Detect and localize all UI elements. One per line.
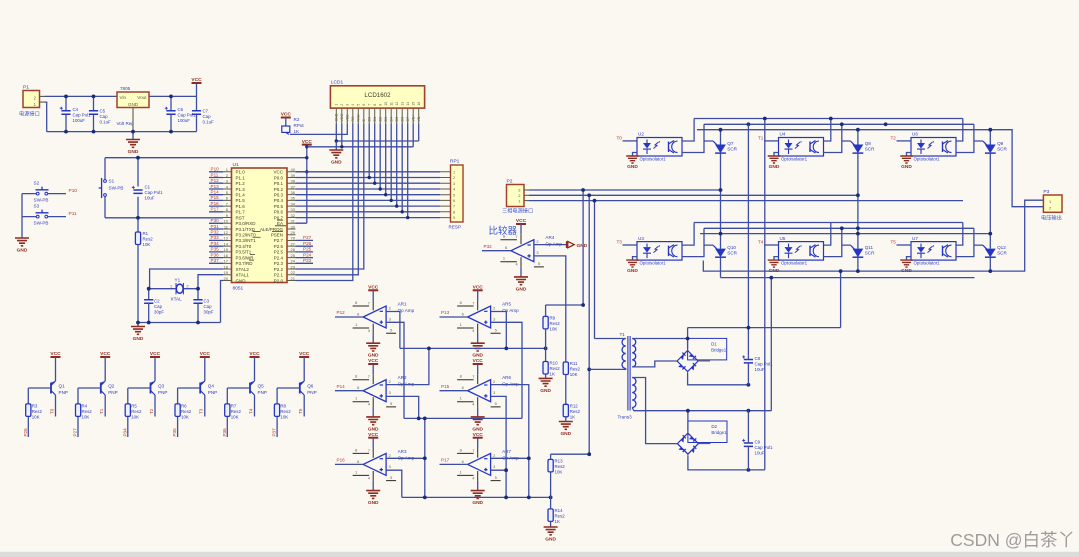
svg-text:8: 8 bbox=[460, 300, 462, 305]
svg-text:XTAL2: XTAL2 bbox=[236, 267, 250, 272]
wire bbox=[688, 411, 765, 470]
svg-text:Trans3: Trans3 bbox=[618, 415, 633, 420]
resistor R12 1K bbox=[563, 403, 580, 419]
power VCC Q1 bbox=[50, 351, 61, 357]
ground U3 bbox=[626, 257, 639, 275]
svg-text:VCC: VCC bbox=[473, 432, 484, 438]
MCU U1 8051 bbox=[223, 162, 296, 292]
svg-text:R1: R1 bbox=[143, 231, 149, 236]
wire bbox=[897, 140, 912, 142]
svg-text:Cap: Cap bbox=[100, 114, 109, 119]
svg-text:4: 4 bbox=[472, 402, 475, 407]
svg-text:VCC: VCC bbox=[200, 351, 211, 357]
svg-text:PNP: PNP bbox=[208, 390, 217, 395]
svg-text:P2: P2 bbox=[507, 179, 513, 185]
wire data bus bbox=[369, 124, 408, 218]
svg-text:6: 6 bbox=[505, 245, 507, 250]
wire phase rails bbox=[529, 190, 963, 201]
svg-text:AR3: AR3 bbox=[398, 449, 407, 454]
svg-text:Cap Pol1: Cap Pol1 bbox=[145, 190, 164, 195]
power VCC AR1 bbox=[368, 285, 379, 301]
svg-text:P0.1: P0.1 bbox=[274, 181, 284, 186]
ground AR5 bbox=[471, 334, 485, 359]
wire rail bbox=[694, 118, 963, 120]
svg-text:10K: 10K bbox=[181, 415, 189, 420]
svg-text:8: 8 bbox=[355, 300, 357, 305]
svg-text:P0.7: P0.7 bbox=[274, 215, 284, 220]
svg-text:3: 3 bbox=[493, 317, 495, 322]
svg-text:VCC: VCC bbox=[249, 351, 260, 357]
svg-text:P3.2/INT0: P3.2/INT0 bbox=[236, 233, 257, 238]
svg-text:Q11: Q11 bbox=[865, 245, 874, 250]
connector P3 voltage output bbox=[1041, 189, 1062, 222]
svg-text:8: 8 bbox=[355, 447, 357, 452]
svg-text:4: 4 bbox=[453, 188, 455, 192]
op-amp AR6 bbox=[457, 374, 519, 408]
resistor R7 10K bbox=[225, 404, 242, 420]
op-amp AR3 bbox=[353, 447, 415, 481]
wire bbox=[296, 124, 364, 281]
power VCC Q3 bbox=[150, 351, 161, 357]
svg-text:U7: U7 bbox=[912, 236, 918, 241]
svg-text:PSEN: PSEN bbox=[271, 233, 283, 238]
svg-text:P36: P36 bbox=[222, 428, 227, 437]
svg-text:1: 1 bbox=[355, 396, 357, 401]
svg-text:U6: U6 bbox=[912, 132, 918, 137]
svg-text:GND: GND bbox=[236, 278, 247, 283]
power VCC AR7 bbox=[473, 432, 484, 448]
svg-text:P3.4/T0: P3.4/T0 bbox=[236, 244, 252, 249]
svg-text:P11: P11 bbox=[211, 172, 219, 177]
svg-text:PNP: PNP bbox=[158, 390, 167, 395]
svg-text:0.1uF: 0.1uF bbox=[100, 120, 112, 125]
svg-text:GND: GND bbox=[128, 102, 139, 107]
wire bbox=[720, 234, 722, 278]
wire bbox=[440, 390, 468, 392]
svg-text:PNP: PNP bbox=[59, 390, 68, 395]
wire bbox=[589, 339, 626, 370]
svg-text:T5: T5 bbox=[298, 408, 303, 414]
svg-text:SCR: SCR bbox=[865, 251, 875, 256]
crystal Y1 XTAL bbox=[170, 278, 189, 302]
svg-text:30pF: 30pF bbox=[154, 310, 164, 315]
wire bbox=[583, 190, 594, 454]
svg-text:4: 4 bbox=[368, 475, 371, 480]
wire bbox=[440, 463, 468, 465]
ground below 7805 bbox=[126, 132, 140, 155]
svg-text:U3: U3 bbox=[638, 236, 644, 241]
svg-text:10K: 10K bbox=[280, 415, 288, 420]
optoisolator U4 bbox=[779, 132, 824, 162]
svg-text:10K: 10K bbox=[131, 415, 139, 420]
wire bbox=[720, 130, 722, 234]
svg-text:8: 8 bbox=[355, 374, 357, 379]
svg-text:Q7: Q7 bbox=[727, 141, 734, 146]
junction VCC column bbox=[305, 145, 308, 173]
svg-text:P2.2: P2.2 bbox=[274, 267, 284, 272]
svg-text:T5: T5 bbox=[891, 240, 897, 245]
op-amp AR5 bbox=[457, 300, 519, 334]
svg-text:2: 2 bbox=[493, 306, 495, 311]
svg-text:2: 2 bbox=[453, 176, 455, 180]
ground switches bbox=[15, 238, 29, 254]
resistor R9 10K bbox=[543, 316, 560, 332]
svg-text:8: 8 bbox=[453, 210, 455, 214]
power VCC Q4 bbox=[200, 351, 211, 357]
svg-text:7: 7 bbox=[368, 448, 370, 453]
resistor R6 10K bbox=[175, 404, 192, 420]
svg-text:RST: RST bbox=[236, 215, 245, 220]
svg-text:8051: 8051 bbox=[233, 286, 244, 292]
bottom scrollbar strip bbox=[0, 552, 1079, 557]
svg-text:Cap Pol1: Cap Pol1 bbox=[755, 362, 774, 367]
wire bbox=[764, 244, 779, 246]
svg-text:U2: U2 bbox=[638, 132, 644, 137]
svg-text:R2: R2 bbox=[294, 117, 300, 122]
svg-text:5: 5 bbox=[495, 475, 497, 480]
svg-text:6: 6 bbox=[362, 104, 366, 106]
svg-text:7: 7 bbox=[368, 301, 370, 306]
svg-text:P33: P33 bbox=[211, 235, 220, 240]
svg-text:30pF: 30pF bbox=[204, 310, 214, 315]
svg-text:4: 4 bbox=[351, 104, 355, 106]
svg-text:R5: R5 bbox=[131, 404, 137, 409]
svg-text:Res2: Res2 bbox=[131, 409, 142, 414]
svg-text:CSDN @白茶丫: CSDN @白茶丫 bbox=[950, 530, 1075, 550]
svg-text:P13: P13 bbox=[441, 310, 450, 315]
svg-text:P17: P17 bbox=[211, 207, 220, 212]
svg-text:P1.7: P1.7 bbox=[236, 210, 246, 215]
wire bbox=[764, 140, 779, 142]
transistor Q6 PNP bbox=[300, 381, 317, 395]
svg-text:Q9: Q9 bbox=[997, 141, 1004, 146]
svg-text:9: 9 bbox=[453, 216, 455, 220]
svg-text:P2.3: P2.3 bbox=[274, 261, 284, 266]
ground U2 bbox=[626, 153, 639, 171]
power VCC main bbox=[191, 77, 202, 96]
svg-text:Vin: Vin bbox=[120, 95, 127, 100]
wire bbox=[857, 130, 859, 234]
svg-text:AR5: AR5 bbox=[502, 302, 511, 307]
op-amp AR1 bbox=[353, 300, 415, 334]
junction D1 bbox=[686, 326, 751, 387]
wire bbox=[551, 454, 590, 497]
transistor Q3 PNP bbox=[150, 381, 167, 395]
junction reset bbox=[136, 156, 140, 220]
svg-text:AR6: AR6 bbox=[502, 375, 511, 380]
wire bbox=[897, 244, 912, 246]
svg-text:R3: R3 bbox=[32, 404, 38, 409]
regulator U 7805 bbox=[117, 86, 150, 132]
wire bbox=[546, 305, 584, 362]
junction bottom rails bbox=[719, 226, 993, 235]
svg-text:P2.6: P2.6 bbox=[274, 244, 284, 249]
svg-text:3: 3 bbox=[493, 390, 495, 395]
svg-text:SW-PB: SW-PB bbox=[109, 186, 124, 191]
svg-text:6: 6 bbox=[453, 199, 455, 203]
power VCC Q5 bbox=[249, 351, 260, 357]
svg-text:P25: P25 bbox=[303, 247, 312, 252]
svg-text:Res2: Res2 bbox=[82, 409, 93, 414]
power VCC AR6 bbox=[473, 358, 484, 374]
svg-text:8: 8 bbox=[460, 374, 462, 379]
svg-text:U4: U4 bbox=[780, 132, 786, 137]
wire port pins bbox=[209, 172, 223, 263]
svg-text:P34: P34 bbox=[122, 428, 127, 437]
svg-text:P0.5: P0.5 bbox=[274, 204, 284, 209]
svg-text:7: 7 bbox=[472, 374, 474, 379]
ground R12 bbox=[559, 417, 573, 437]
svg-text:P26: P26 bbox=[303, 241, 312, 246]
svg-text:P14: P14 bbox=[337, 384, 346, 389]
ground AR1 bbox=[366, 334, 380, 359]
svg-text:C8: C8 bbox=[755, 356, 761, 361]
svg-text:GND: GND bbox=[472, 353, 483, 359]
svg-text:T4: T4 bbox=[248, 408, 253, 414]
thyristor Q10 SCR bbox=[713, 245, 737, 257]
wire bbox=[721, 277, 975, 279]
svg-text:8: 8 bbox=[460, 447, 462, 452]
svg-text:C4: C4 bbox=[73, 107, 79, 112]
svg-text:D1: D1 bbox=[711, 342, 717, 347]
capacitor C3 30pF bbox=[193, 299, 213, 315]
svg-text:P17: P17 bbox=[441, 458, 450, 463]
svg-text:1K: 1K bbox=[294, 129, 301, 134]
optoisolator U6 bbox=[911, 132, 956, 162]
svg-text:P32: P32 bbox=[484, 244, 493, 249]
svg-text:3: 3 bbox=[493, 464, 495, 469]
svg-text:P15: P15 bbox=[441, 384, 450, 389]
svg-text:1: 1 bbox=[170, 284, 172, 288]
svg-text:P1.2: P1.2 bbox=[236, 181, 246, 186]
wire bbox=[748, 119, 840, 470]
transistor Q4 PNP bbox=[200, 381, 217, 395]
svg-text:Q10: Q10 bbox=[727, 245, 736, 250]
svg-text:C2: C2 bbox=[154, 299, 160, 304]
svg-text:6: 6 bbox=[357, 312, 359, 317]
svg-text:PNP: PNP bbox=[307, 390, 316, 395]
svg-text:9: 9 bbox=[378, 104, 382, 106]
svg-text:Optoisolator1: Optoisolator1 bbox=[781, 261, 808, 266]
svg-text:Res2: Res2 bbox=[555, 513, 566, 518]
wire rail bbox=[694, 222, 963, 224]
svg-text:T1: T1 bbox=[758, 136, 764, 141]
svg-text:GND: GND bbox=[545, 537, 556, 543]
wire bbox=[688, 328, 841, 385]
svg-text:C1: C1 bbox=[145, 185, 151, 190]
svg-text:P1.3: P1.3 bbox=[236, 187, 246, 192]
svg-text:R10: R10 bbox=[550, 361, 559, 366]
svg-text:GND: GND bbox=[368, 426, 379, 432]
svg-text:Res2: Res2 bbox=[181, 409, 192, 414]
svg-text:LCD1: LCD1 bbox=[331, 80, 344, 86]
svg-text:P1.4: P1.4 bbox=[236, 193, 246, 198]
capacitor C2 30pF bbox=[144, 299, 164, 315]
svg-text:6: 6 bbox=[462, 459, 464, 464]
svg-text:Res2: Res2 bbox=[143, 237, 154, 242]
svg-text:P3.1/TXD: P3.1/TXD bbox=[236, 227, 256, 232]
svg-text:1K: 1K bbox=[550, 372, 555, 377]
thyristor Q11 SCR bbox=[851, 245, 875, 257]
wire rail bbox=[700, 233, 990, 235]
svg-text:GND: GND bbox=[540, 388, 551, 394]
wire bbox=[956, 119, 983, 153]
svg-text:AR7: AR7 bbox=[502, 449, 511, 454]
svg-text:1: 1 bbox=[355, 469, 357, 474]
svg-text:2: 2 bbox=[389, 379, 391, 384]
svg-text:Res2: Res2 bbox=[550, 366, 561, 371]
svg-text:R4: R4 bbox=[82, 404, 88, 409]
svg-text:RPot: RPot bbox=[294, 123, 305, 128]
svg-text:ALE/PROG: ALE/PROG bbox=[260, 227, 284, 232]
svg-text:P0.0: P0.0 bbox=[274, 175, 284, 180]
op-amp AR4 bbox=[500, 234, 562, 268]
svg-text:Y1: Y1 bbox=[175, 278, 181, 283]
svg-text:10K: 10K bbox=[570, 372, 578, 377]
svg-text:Cap Pol1: Cap Pol1 bbox=[178, 113, 197, 118]
svg-text:VCC: VCC bbox=[100, 351, 111, 357]
svg-text:1K: 1K bbox=[555, 519, 560, 524]
svg-text:PNP: PNP bbox=[258, 390, 267, 395]
resistor R4 10K bbox=[76, 404, 93, 420]
ground AR2 bbox=[366, 407, 380, 432]
svg-text:XTAL: XTAL bbox=[171, 297, 183, 302]
display LCD1 LCD1602 bbox=[330, 80, 424, 124]
transistor Q1 PNP bbox=[51, 381, 68, 395]
svg-text:6: 6 bbox=[357, 385, 359, 390]
resistor R1 10K bbox=[135, 231, 153, 323]
svg-text:T0: T0 bbox=[617, 136, 623, 141]
svg-text:5: 5 bbox=[453, 193, 455, 197]
svg-text:GND: GND bbox=[17, 248, 28, 254]
svg-text:三相电源接口: 三相电源接口 bbox=[502, 207, 533, 215]
svg-text:P10: P10 bbox=[69, 188, 78, 194]
svg-text:Cap: Cap bbox=[154, 304, 163, 309]
svg-text:P3.0/RXD: P3.0/RXD bbox=[236, 221, 257, 226]
svg-text:Q1: Q1 bbox=[59, 384, 66, 389]
svg-text:P1.1: P1.1 bbox=[236, 175, 246, 180]
wire bbox=[227, 357, 254, 437]
svg-text:2: 2 bbox=[493, 453, 495, 458]
svg-text:P11: P11 bbox=[69, 211, 78, 217]
svg-text:0.1uF: 0.1uF bbox=[203, 120, 215, 125]
svg-text:GND: GND bbox=[516, 286, 527, 292]
svg-text:R13: R13 bbox=[555, 458, 564, 463]
svg-text:1: 1 bbox=[503, 256, 505, 261]
svg-text:100uF: 100uF bbox=[178, 118, 191, 123]
svg-text:RESP: RESP bbox=[449, 225, 462, 230]
svg-text:15: 15 bbox=[411, 102, 415, 106]
svg-text:5: 5 bbox=[390, 327, 392, 332]
svg-text:Res2: Res2 bbox=[32, 409, 43, 414]
svg-text:10K: 10K bbox=[143, 242, 151, 247]
switch S1 SW-PB reset bbox=[99, 178, 124, 198]
svg-text:电压输出: 电压输出 bbox=[1041, 214, 1062, 222]
svg-text:P0.6: P0.6 bbox=[274, 210, 284, 215]
svg-text:P34: P34 bbox=[211, 241, 220, 246]
svg-text:P30: P30 bbox=[211, 218, 220, 223]
potentiometer R2 RPot 1K bbox=[281, 112, 305, 135]
wire bbox=[989, 234, 991, 272]
svg-text:P3.7/RD: P3.7/RD bbox=[236, 261, 254, 266]
svg-text:4: 4 bbox=[516, 262, 519, 267]
svg-text:T3: T3 bbox=[199, 408, 204, 414]
svg-text:11: 11 bbox=[389, 102, 393, 106]
wire reset network bbox=[105, 158, 307, 232]
svg-text:VCC: VCC bbox=[302, 139, 313, 145]
svg-text:10uF: 10uF bbox=[755, 367, 765, 372]
capacitor C8 10uF bbox=[742, 355, 773, 384]
svg-text:P36: P36 bbox=[211, 252, 220, 257]
power VCC Q2 bbox=[100, 351, 111, 357]
svg-text:2: 2 bbox=[536, 239, 538, 244]
ground U6 bbox=[900, 153, 913, 171]
svg-text:P15: P15 bbox=[211, 195, 220, 200]
svg-text:S2: S2 bbox=[34, 181, 40, 186]
optoisolator U5 bbox=[779, 236, 824, 266]
thyristor Q7 SCR bbox=[713, 141, 737, 153]
svg-text:Cap Pol1: Cap Pol1 bbox=[73, 113, 92, 118]
resistor R10 1K bbox=[543, 361, 560, 377]
svg-text:GND: GND bbox=[472, 426, 483, 432]
svg-text:T2: T2 bbox=[891, 136, 897, 141]
svg-text:SCR: SCR bbox=[997, 147, 1007, 152]
capacitor C1 10uF bbox=[132, 185, 163, 201]
svg-text:P37: P37 bbox=[211, 258, 220, 263]
transformer T1 Trans3 bbox=[618, 332, 636, 419]
optoisolator U3 bbox=[637, 236, 682, 266]
power VCC AR4 bbox=[516, 218, 527, 234]
svg-text:R14: R14 bbox=[555, 508, 564, 513]
svg-text:GND: GND bbox=[133, 336, 144, 342]
svg-text:100uF: 100uF bbox=[73, 118, 86, 123]
capacitor C9 10uF bbox=[742, 411, 773, 470]
svg-text:2: 2 bbox=[389, 453, 391, 458]
svg-text:Res2: Res2 bbox=[570, 367, 581, 372]
svg-text:10K: 10K bbox=[32, 415, 40, 420]
svg-text:XTAL1: XTAL1 bbox=[236, 273, 250, 278]
svg-text:P12: P12 bbox=[211, 178, 220, 183]
ground AR7 bbox=[471, 481, 485, 506]
svg-text:7: 7 bbox=[472, 301, 474, 306]
svg-text:SCR: SCR bbox=[727, 147, 737, 152]
svg-text:SCR: SCR bbox=[865, 147, 875, 152]
svg-text:Op Amp: Op Amp bbox=[502, 308, 519, 313]
svg-text:P12: P12 bbox=[337, 310, 346, 315]
svg-text:P3.6/WR: P3.6/WR bbox=[236, 255, 255, 260]
svg-text:P2.5: P2.5 bbox=[274, 250, 284, 255]
svg-text:AR4: AR4 bbox=[545, 235, 554, 240]
svg-text:P3: P3 bbox=[1043, 189, 1049, 195]
switch S2 SW-PB bbox=[22, 181, 66, 203]
svg-text:Q3: Q3 bbox=[158, 384, 165, 389]
svg-text:VCC: VCC bbox=[473, 285, 484, 291]
resistor R5 10K bbox=[125, 404, 142, 420]
junction power rails bbox=[64, 95, 173, 134]
transistor Q2 PNP bbox=[100, 381, 117, 395]
svg-text:14: 14 bbox=[406, 102, 410, 106]
svg-text:VCC: VCC bbox=[150, 351, 161, 357]
svg-text:S3: S3 bbox=[34, 204, 40, 209]
net labels P10-P17 P30-P37 bbox=[211, 167, 220, 264]
ground R14 bbox=[544, 527, 558, 543]
svg-text:4: 4 bbox=[368, 328, 371, 333]
svg-text:GND: GND bbox=[128, 149, 139, 155]
power VCC logic bbox=[302, 139, 313, 223]
wire bbox=[682, 223, 713, 257]
ground U7 bbox=[900, 257, 913, 275]
wire bbox=[28, 357, 55, 437]
